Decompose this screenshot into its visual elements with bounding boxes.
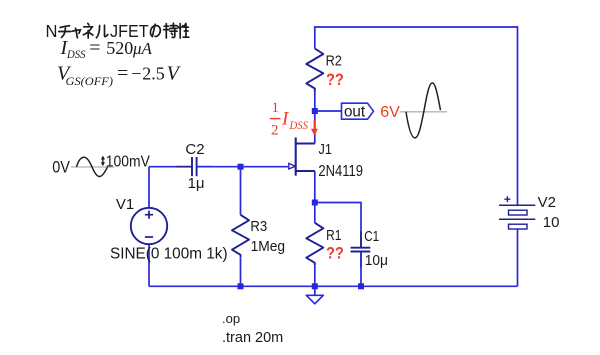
svg-text:1: 1	[272, 100, 280, 116]
wire node to out flag	[315, 110, 342, 112]
svg-text:R2: R2	[326, 53, 342, 69]
resistor R1	[306, 203, 323, 287]
svg-text:2N4119: 2N4119	[318, 163, 363, 180]
net flag out	[342, 103, 374, 120]
svg-text:DSS: DSS	[289, 120, 309, 132]
resistor R2	[306, 49, 323, 92]
capacitor C1	[351, 232, 371, 268]
svg-text:C1: C1	[364, 227, 379, 244]
annotation current arrow (red)	[311, 120, 318, 136]
kanji sei	[179, 24, 181, 38]
katakana ru	[96, 26, 99, 38]
svg-text:.tran 20m: .tran 20m	[222, 330, 283, 346]
katakana ne	[88, 23, 89, 25]
katakana chi	[60, 26, 69, 28]
node rail below C1	[358, 283, 364, 289]
svg-text:??: ??	[326, 244, 344, 262]
svg-text:V: V	[167, 63, 182, 85]
node gate junction	[238, 164, 244, 170]
svg-text:100mV: 100mV	[106, 153, 150, 171]
svg-text:=: =	[117, 63, 128, 85]
svg-text:.op: .op	[222, 311, 240, 326]
wire R2 bottom to drain node	[314, 91, 316, 144]
wire source junction to C1	[315, 203, 361, 248]
transistor J1 (NJF)	[289, 137, 315, 202]
node out junction	[312, 108, 318, 114]
svg-text:??: ??	[326, 71, 344, 89]
svg-text:1μ: 1μ	[188, 175, 205, 192]
ground symbol	[306, 286, 323, 304]
svg-text:520: 520	[106, 38, 133, 58]
node rail below R1	[312, 283, 318, 289]
wire C1 bottom to ground rail	[360, 252, 362, 287]
input sine wave	[71, 157, 115, 176]
svg-text:N: N	[46, 20, 58, 41]
svg-text:R3: R3	[250, 217, 267, 234]
svg-text:0V: 0V	[52, 159, 70, 177]
svg-text:V2: V2	[538, 194, 556, 211]
svg-text:=: =	[89, 37, 100, 59]
capacitor C2	[177, 157, 214, 176]
node rail below R3	[238, 283, 244, 289]
resistor R3	[232, 167, 249, 287]
svg-text:2.5: 2.5	[142, 64, 165, 84]
svg-text:1Meg: 1Meg	[251, 238, 286, 255]
label IDSS = 520uA	[60, 37, 153, 61]
kanji toku	[164, 25, 168, 27]
voltage source V2 battery	[499, 196, 535, 286]
wire gate node to J1 gate	[241, 166, 290, 168]
wire top rail from R2 top to V2 branch	[315, 27, 518, 205]
output sine wave	[400, 83, 447, 138]
svg-text:R1: R1	[326, 227, 341, 244]
svg-text:C2: C2	[185, 141, 204, 158]
node source junction	[312, 200, 318, 206]
voltage source V1	[131, 167, 167, 287]
svg-text:6V: 6V	[380, 104, 400, 121]
svg-text:10μ: 10μ	[365, 252, 388, 269]
annotation half IDSS (red fraction)	[270, 100, 308, 139]
wire bottom rail	[149, 285, 518, 287]
svg-text:DSS: DSS	[66, 49, 86, 61]
hiragana no	[152, 24, 155, 36]
svg-text:10: 10	[543, 214, 560, 231]
label VGS(OFF) = -2.5V	[57, 63, 182, 88]
wire V1 top to C2	[149, 166, 192, 168]
svg-text:V1: V1	[116, 196, 134, 213]
svg-text:J1: J1	[319, 140, 333, 157]
svg-text:out: out	[344, 103, 366, 120]
wire C2 to gate node	[197, 166, 241, 168]
katakana small ya	[72, 30, 80, 34]
title text N-channel JFET characteristics	[46, 20, 189, 41]
svg-text:SINE(0 100m 1k): SINE(0 100m 1k)	[110, 245, 228, 262]
svg-text:2: 2	[271, 123, 279, 139]
svg-text:−: −	[131, 64, 141, 84]
svg-text:GS(OFF): GS(OFF)	[66, 74, 114, 88]
annotation updown arrow 100mV	[101, 153, 150, 171]
svg-text:μA: μA	[132, 39, 153, 58]
